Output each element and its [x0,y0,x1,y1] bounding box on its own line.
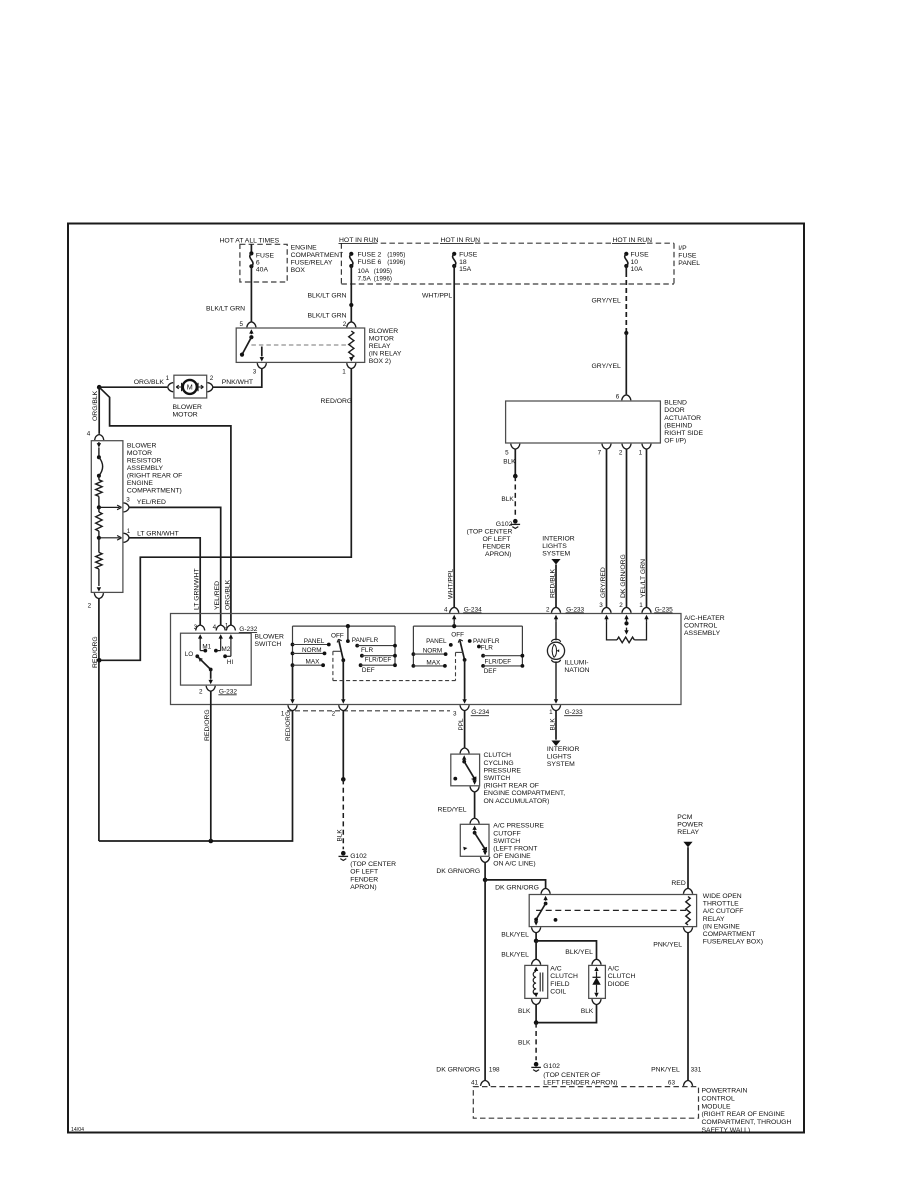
label MAX (switch 1) [306,659,321,666]
svg-text:RED/ORG: RED/ORG [92,636,99,668]
label YEL/RED [137,499,166,506]
svg-text:3: 3 [253,368,257,375]
wire GRY/RED [606,449,608,607]
WOT relay switch out connector [532,927,541,933]
svg-text:1: 1 [281,710,285,717]
svg-text:6: 6 [616,393,620,400]
svg-text:2: 2 [332,710,336,717]
svg-text:GRY/RED: GRY/RED [600,567,607,598]
svg-text:4: 4 [87,431,91,438]
label G-233 (top) [566,606,585,613]
label WIDE OPEN THROTTLE A/C CUTOFF RELAY (IN ENGINE COMPARTMENT FUSE/RELAY BOX) [703,893,763,946]
label BLK/LT GRN (upper) [308,292,347,299]
svg-text:POWERTRAIN: POWERTRAIN [702,1088,748,1095]
svg-text:ENGINE: ENGINE [291,244,318,251]
blower switch output [209,670,213,685]
assembly G-235 pin 3 connector [599,602,611,613]
wire RED/YEL [474,792,476,818]
svg-text:SWITCH: SWITCH [484,775,511,782]
mode switch 1 output [341,660,345,703]
svg-text:BLOWER: BLOWER [255,633,285,640]
svg-text:(LEFT FRONT: (LEFT FRONT [493,846,537,853]
node BLK/YEL junction [534,939,539,944]
svg-text:CONTROL: CONTROL [684,622,717,629]
label DEF (switch 2) [484,668,497,675]
svg-text:LIGHTS: LIGHTS [542,543,567,550]
svg-text:G-233: G-233 [565,709,583,716]
PCM pin 63 connector [683,1080,692,1086]
blend door actuator pin 5 connector [505,444,520,457]
wire BLK blend door pin 5 [514,449,516,476]
blower switch pin 1 connector G-232 [225,622,236,630]
svg-text:A/C PRESSURE: A/C PRESSURE [493,823,544,830]
svg-text:PANEL: PANEL [678,260,700,267]
label RED/ORG (by relay) [321,398,353,405]
resistor R1 [96,476,102,508]
svg-text:1: 1 [127,528,131,535]
svg-text:NATION: NATION [564,667,589,674]
wire DK GRN/ORG to PCM pin 41 [484,880,486,1081]
wire ORG/BLK branch to blower switch pin 1 [99,387,231,625]
svg-text:(TOP CENTER OF: (TOP CENTER OF [543,1072,600,1079]
svg-text:A/C CUTOFF: A/C CUTOFF [703,908,744,915]
svg-text:MODULE: MODULE [702,1103,732,1110]
label PAN/FLR (switch 2) [468,638,500,645]
svg-text:FUSE: FUSE [459,251,478,258]
assembly pin 1 connector G-233 (bottom) [549,705,560,716]
svg-text:PCM: PCM [677,814,692,821]
svg-text:FUSE 6: FUSE 6 [358,259,382,266]
svg-text:ASSEMBLY: ASSEMBLY [127,465,164,472]
svg-text:2: 2 [546,606,550,613]
wire DK GRN/ORG to WOT relay [485,880,545,888]
wide open throttle A/C cutoff relay box [529,895,696,927]
fuse 6 40A [249,251,253,268]
wire ORG/BLK junction down to resistor pin 4 [98,387,100,434]
label BLOWER MOTOR [173,404,203,419]
wire BLK dashed to G102 [535,1023,537,1061]
A/C clutch diode symbol [592,967,600,998]
svg-text:M1: M1 [202,643,211,650]
A/C cutoff switch contacts [463,826,487,856]
relay pin 2 connector [343,321,356,328]
svg-text:10: 10 [631,259,639,266]
label RED/YEL [438,807,467,814]
label HOT IN RUN (fuse 18) [440,237,480,244]
wire BLK/LT GRN fuse6 to relay pin5 [250,266,252,322]
powertrain control module box (dashed) [473,1087,698,1119]
svg-text:10A: 10A [631,266,644,273]
label FUSE 2 (1995) [358,251,406,258]
node BLK junction [534,1020,539,1025]
svg-text:FUSE: FUSE [678,252,697,259]
svg-text:M: M [187,383,193,392]
A/C clutch field coil winding [533,967,543,998]
A/C clutch field coil box [525,965,548,998]
node BLK splice [341,777,346,782]
label HOT IN RUN (fuse 10) [612,237,652,244]
label A/C CLUTCH DIODE [608,966,636,988]
svg-text:FUSE: FUSE [631,251,650,258]
label DK GRN/ORG (to relay) [495,885,539,892]
wire BLK mode switch1 to splice [342,711,344,780]
svg-text:SWITCH: SWITCH [493,838,520,845]
label M1 [202,643,211,650]
svg-text:INTERIOR: INTERIOR [547,746,580,753]
svg-text:NORM: NORM [423,648,443,655]
svg-text:APRON): APRON) [350,884,376,891]
svg-text:18: 18 [459,259,467,266]
svg-text:A/C: A/C [608,966,619,973]
label PANEL (switch 1) [304,638,325,645]
svg-text:41: 41 [471,1080,479,1087]
mode switch 2 MAX row [412,664,447,668]
svg-text:DOOR: DOOR [664,407,684,414]
svg-text:BLOWER: BLOWER [127,443,157,450]
mode switch 1 lever [337,639,345,662]
connector dashed line G-234 [287,710,450,712]
label G-232 (bottom) [218,688,237,695]
svg-text:1: 1 [342,368,346,375]
svg-text:(IN ENGINE: (IN ENGINE [703,923,740,930]
svg-text:(1996): (1996) [387,259,405,266]
splice on GRY/YEL [624,331,628,335]
svg-text:THROTTLE: THROTTLE [703,901,739,908]
wire BLK/YEL to field coil [535,941,537,959]
svg-text:FLR/DEF: FLR/DEF [365,657,392,664]
wire WHT/PPL fuse18 to G-234 pin 4 [453,266,455,607]
svg-text:(RIGHT REAR OF: (RIGHT REAR OF [127,473,182,480]
svg-text:BLK: BLK [501,496,514,503]
label G102 (TOP CENTER OF LEFT FENDER APRON) blend [467,521,513,558]
svg-text:LT GRN/WHT: LT GRN/WHT [194,568,201,610]
label BLK (vertical) [336,829,343,842]
svg-text:A/C: A/C [550,966,561,973]
svg-text:LIGHTS: LIGHTS [547,753,572,760]
label BLOWER MOTOR RESISTOR ASSEMBLY (RIGHT REAR OF ENGINE COMPARTMENT) [127,443,182,495]
label OFF (switch 1) [331,633,344,640]
blower switch M1 contact [198,634,207,652]
wire BLK to interior lights [555,711,557,740]
svg-text:FLR: FLR [481,644,493,651]
svg-text:FLR/DEF: FLR/DEF [485,659,512,666]
resistor output arrow [97,587,101,591]
svg-text:MAX: MAX [426,659,441,666]
svg-text:MOTOR: MOTOR [369,336,394,343]
svg-text:SAFETY WALL): SAFETY WALL) [702,1127,751,1134]
node resistor tap 1 [97,536,101,540]
label BLK/YEL (branch) [565,949,593,956]
resistor pin 1 connector [124,528,131,543]
label circuit 198 [489,1067,500,1074]
A/C clutch diode connector (bottom) [592,999,601,1005]
svg-text:CYCLING: CYCLING [484,760,514,767]
label BLK (blend, lower) [501,496,514,503]
node ORG/BLK junction [97,385,102,390]
assembly pin 3 connector G-234 (bottom) [453,705,469,717]
svg-text:G-235: G-235 [655,606,673,613]
assembly pin 2 connector G-233 [546,606,561,613]
blower switch LO contact [195,654,199,658]
I/P fuse panel box (dashed) [341,243,674,284]
resistor R2 [96,507,102,537]
svg-text:LO: LO [185,651,194,658]
label RED/ORG (vertical, pin2) [204,709,211,741]
svg-text:DK GRN/ORG: DK GRN/ORG [620,554,627,598]
svg-text:PAN/FLR: PAN/FLR [352,637,379,644]
node BLK splice (blend) [513,474,518,479]
svg-text:G102: G102 [496,521,513,528]
ground G102 (mode switch) [339,851,349,861]
label YEL/RED (vertical) [214,581,221,610]
assembly G-235 pin 1 connector [639,602,651,613]
svg-text:2: 2 [619,449,623,456]
svg-text:G-233: G-233 [566,606,584,613]
label BLK/YEL (lower left) [501,951,529,958]
label DK GRN/ORG (at PCM) [436,1067,480,1074]
svg-text:(1995): (1995) [387,251,405,258]
wire RED/BLK [555,565,557,608]
label FUSE 10 10A [631,251,650,273]
label OFF (switch 2) [451,632,464,639]
wire BLK/YEL branch to diode [536,941,596,959]
svg-text:RED: RED [671,880,685,887]
mode switch 2 output [462,660,466,704]
junction on BLK/LT GRN wire [349,303,353,307]
relay coil [349,331,354,358]
label A/C-HEATER CONTROL ASSEMBLY [684,615,725,637]
svg-text:NORM: NORM [302,647,322,654]
fuse 2 (1995) / fuse 6 (1996) [349,252,353,268]
mode switch 1 MAX row [291,663,325,667]
blower switch pin 3 connector G-232 [194,624,205,631]
svg-text:(RIGHT REAR OF ENGINE: (RIGHT REAR OF ENGINE [702,1111,786,1118]
svg-text:RED/BLK: RED/BLK [549,568,556,598]
blower switch pin 4 connector G-232 [213,624,226,631]
node INTERIOR LIGHTS SYSTEM (feed) [542,536,575,565]
svg-text:G-234: G-234 [471,709,489,716]
label FLR (switch 1) [361,647,373,654]
blower switch pin 2 connector G-232 [199,686,215,696]
svg-text:15A: 15A [459,266,472,273]
svg-text:3: 3 [453,710,457,717]
svg-text:1: 1 [639,602,643,609]
label GRY/YEL (lower) [592,363,622,370]
svg-text:FUSE/RELAY BOX): FUSE/RELAY BOX) [703,939,763,946]
mode switch 2 FLR/DEF row [481,654,524,658]
label ORG/BLK (vertical) [92,390,99,421]
svg-text:(TOP CENTER: (TOP CENTER [467,528,513,535]
label PAN/FLR (switch 1) [352,637,379,644]
blower motor pin 1 connector [166,375,174,392]
wire BLK diode to junction [536,1005,596,1023]
svg-text:BLK/YEL: BLK/YEL [501,931,529,938]
wire GRY/YEL upper (dashed) [625,266,627,333]
svg-text:(IN RELAY: (IN RELAY [369,351,402,358]
svg-text:ORG/BLK: ORG/BLK [224,579,231,610]
blend door actuator pin 2 connector [619,444,631,457]
assembly internal arrow at pin 2 [554,615,558,622]
svg-text:DIODE: DIODE [608,981,630,988]
label RED [671,880,685,887]
assembly internal arrow at pin g235-2 [624,615,628,622]
svg-text:BLK: BLK [518,1040,531,1047]
blower switch box [181,633,252,685]
svg-text:RED/YEL: RED/YEL [438,807,467,814]
svg-text:RELAY: RELAY [703,916,725,923]
mode switch 1 rail output to pin 1 [290,665,294,703]
wire DK GRN/ORG (blend) [626,449,628,607]
svg-text:2: 2 [343,321,347,328]
svg-text:63: 63 [668,1080,676,1087]
svg-text:BLK: BLK [549,718,556,731]
assembly internal arrow at pin g235-3 [604,615,608,622]
svg-text:DK GRN/ORG: DK GRN/ORG [436,868,480,875]
svg-text:YEL/RED: YEL/RED [214,581,221,610]
svg-text:HOT IN RUN: HOT IN RUN [613,237,653,244]
label FUSE 6 40A [256,252,275,273]
label BLOWER MOTOR RELAY (IN RELAY BOX 2) [369,328,402,365]
mode switch 2 lever [458,639,466,661]
node RED/ORG junction [97,658,102,663]
label G-233 (bottom) [564,709,583,716]
relay internal dashed link [251,344,351,346]
wire PPL [464,711,466,748]
label HOT AT ALL TIMES [220,237,280,244]
node DK GRN/ORG junction [483,878,488,883]
svg-text:3: 3 [599,602,603,609]
svg-text:PANEL: PANEL [426,638,447,645]
engine compartment fuse/relay box (dashed) [240,244,287,282]
label G-234 (top) [463,606,482,613]
svg-text:4: 4 [213,624,217,631]
label CLUTCH CYCLING PRESSURE SWITCH (RIGHT REAR OF ENGINE COMPARTMENT, ON ACCUMULATOR) [484,752,566,805]
svg-text:RED/ORG: RED/ORG [285,711,292,741]
blower motor relay box [236,328,365,362]
svg-text:ENGINE: ENGINE [127,480,154,487]
label ORG/BLK [134,379,165,386]
mode switch 2 frame [413,626,522,666]
node PCM POWER RELAY [677,814,703,847]
svg-text:CLUTCH: CLUTCH [608,973,636,980]
svg-text:FUSE: FUSE [256,252,275,259]
svg-text:PANEL: PANEL [304,638,325,645]
label pin 63 [668,1080,676,1087]
svg-text:PNK/YEL: PNK/YEL [651,1067,680,1074]
wire RED/ORG relay pin1 down-left [99,369,351,661]
svg-text:BLK: BLK [518,1008,531,1015]
wire BLK dashed to ground [342,779,344,849]
label FUSE 6 (1996) [358,259,406,266]
label A/C PRESSURE CUTOFF SWITCH (LEFT FRONT OF ENGINE ON A/C LINE) [493,823,544,868]
WOT relay coil out connector [683,927,692,933]
label BLK (dashed) [518,1040,531,1047]
node RED/ORG bottom junction [209,839,214,844]
blend door actuator pin 6 connector [616,393,631,400]
label LT GRN/WHT [137,530,179,537]
wire PNK/WHT motor to relay pin 3 [213,369,262,388]
label 10A (1995) [358,268,393,275]
svg-text:5: 5 [239,321,243,328]
svg-text:3: 3 [126,496,130,503]
A/C pressure cutoff switch connector (bottom) [481,857,490,863]
A/C clutch diode box [589,965,606,998]
svg-text:CUTOFF: CUTOFF [493,830,520,837]
svg-text:GRY/YEL: GRY/YEL [592,298,622,305]
svg-text:RESISTOR: RESISTOR [127,458,162,465]
svg-text:G-232: G-232 [239,626,257,633]
svg-text:RIGHT SIDE: RIGHT SIDE [664,430,703,437]
blend position potentiometer [607,621,647,642]
wire mode switch 1 to assembly edge [342,660,344,699]
blend door actuator pin 7 connector [598,444,611,457]
resistor pin 3 connector [124,496,131,512]
svg-text:DK GRN/ORG: DK GRN/ORG [436,1067,480,1074]
relay pin 3 connector [253,363,267,375]
assembly internal arrow at pin g235-1 [644,615,648,622]
ground G102 (A/C clutch) [531,1062,541,1072]
label ORG/BLK (vertical, switch) [224,579,231,610]
svg-text:OF LEFT: OF LEFT [482,536,510,543]
label YEL/LT GRN (vertical) [640,559,647,598]
label PANEL (switch 2) [426,638,453,647]
label BLEND DOOR ACTUATOR (BEHIND RIGHT SIDE OF I/P) [664,400,703,445]
label ILLUMINATION [564,659,589,674]
mode switch 2 feed node [452,621,456,628]
assembly pin 4 connector G-234 [444,606,459,613]
label DEF (switch 1) [362,667,375,674]
label GRY/RED (vertical) [600,567,607,598]
svg-text:2: 2 [199,688,203,695]
label NORM (switch 1) [302,647,322,654]
svg-text:WHT/PPL: WHT/PPL [422,292,452,299]
clutch cycling pressure switch connector (bottom) [470,787,479,793]
svg-text:G-232: G-232 [219,688,237,695]
label HI [227,659,234,666]
blower motor resistor assembly box [91,441,123,593]
blower switch lever [197,656,212,671]
svg-text:331: 331 [691,1067,702,1074]
svg-text:ACTUATOR: ACTUATOR [664,415,701,422]
svg-text:BLK/LT GRN: BLK/LT GRN [206,306,245,313]
WOT relay pin connector (coil in) [683,888,692,894]
svg-text:14/04: 14/04 [71,1127,84,1133]
WOT relay pin connector (switch in) [541,888,550,894]
svg-text:M2: M2 [222,646,231,653]
svg-text:FUSE/RELAY: FUSE/RELAY [291,259,333,266]
assembly internal arrow at pin 4 [452,615,456,622]
svg-text:I/P: I/P [678,245,687,252]
svg-text:7: 7 [598,449,602,456]
wire RED/ORG bottom run [99,711,293,841]
svg-text:FUSE 2: FUSE 2 [358,251,382,258]
svg-text:2: 2 [88,602,92,609]
label PNK/WHT [222,379,253,386]
svg-text:SYSTEM: SYSTEM [547,761,575,768]
label RED/ORG (vertical left) [92,636,99,668]
svg-text:PPL: PPL [458,718,465,731]
svg-text:WIDE OPEN: WIDE OPEN [703,893,742,900]
svg-text:RELAY: RELAY [677,829,699,836]
label BLK (diode) [581,1008,594,1015]
svg-text:CONTROL: CONTROL [702,1095,735,1102]
svg-text:BLK/YEL: BLK/YEL [501,951,529,958]
svg-text:ILLUMI-: ILLUMI- [564,659,588,666]
svg-text:WHT/PPL: WHT/PPL [447,569,454,599]
node INTERIOR LIGHTS SYSTEM (lower) [547,741,580,768]
label BLK/LT GRN [206,306,245,313]
svg-text:FENDER: FENDER [482,543,510,550]
